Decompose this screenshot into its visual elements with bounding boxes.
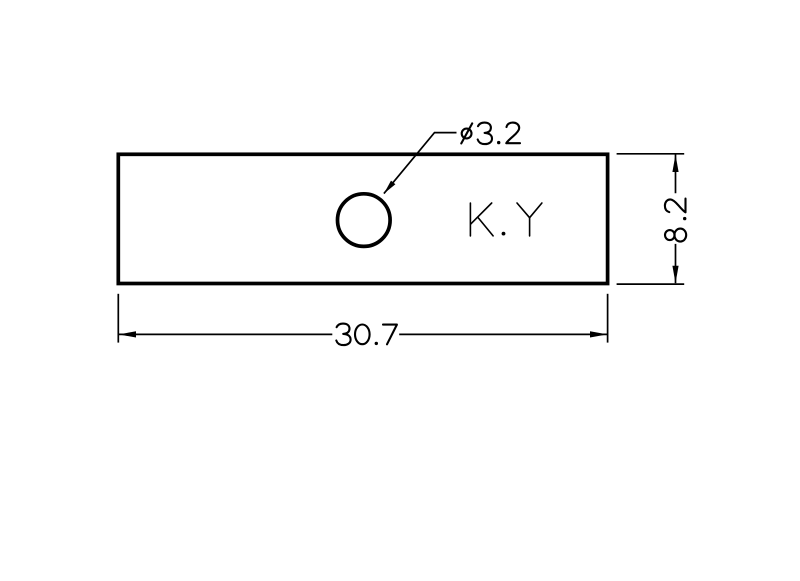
label 30.7 <box>336 324 397 346</box>
text K.Y <box>470 203 542 236</box>
bottom dimension line <box>119 333 608 335</box>
label ø3.2 <box>461 123 520 145</box>
right dimension extension line top <box>617 153 685 155</box>
right dimension line <box>675 155 677 284</box>
plate outline <box>118 154 607 283</box>
hole ø3.2 <box>338 194 391 247</box>
bottom dimension extension line right <box>607 294 609 343</box>
right dim arrow bottom <box>672 266 678 284</box>
bottom dim arrow left <box>119 331 136 337</box>
leader arrowhead <box>384 181 396 194</box>
label 8.2 (rotated) <box>665 199 687 242</box>
right dim arrow top <box>672 155 678 173</box>
bottom dimension extension line left <box>117 294 119 343</box>
bottom dim arrow right <box>590 331 607 337</box>
right dimension extension line bottom <box>617 283 685 285</box>
leader line to hole <box>384 133 457 194</box>
